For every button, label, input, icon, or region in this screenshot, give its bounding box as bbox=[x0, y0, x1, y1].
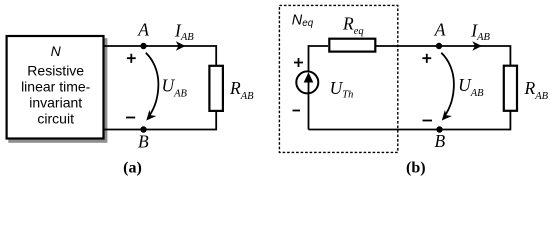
wire bottom (b) bbox=[309, 111, 511, 130]
svg-text:A: A bbox=[137, 20, 149, 40]
svg-text:N: N bbox=[51, 43, 62, 59]
svg-text:B: B bbox=[435, 131, 446, 151]
voltage arrow U_AB (a) bbox=[146, 53, 159, 117]
svg-text:B: B bbox=[138, 132, 149, 152]
resistor R_AB (b) bbox=[504, 66, 517, 111]
voltage arrow U_AB (b) bbox=[441, 53, 454, 117]
plus sign source bbox=[294, 58, 303, 67]
wire source top (b) bbox=[309, 46, 329, 71]
node B (a) bbox=[140, 126, 146, 132]
voltage source U_Th bbox=[296, 71, 318, 93]
plus sign (a) bbox=[127, 54, 136, 63]
svg-text:(a): (a) bbox=[123, 160, 142, 177]
current arrow I_AB (a) bbox=[176, 41, 186, 50]
wire source bottom (b) bbox=[308, 94, 310, 130]
current arrow I_AB (b) bbox=[472, 41, 482, 50]
node A (b) bbox=[436, 43, 442, 49]
label N resistive linear time-invariant circuit bbox=[21, 43, 91, 127]
wire bottom (a) bbox=[104, 111, 216, 130]
resistor R_AB (a) bbox=[209, 66, 223, 111]
svg-text:A: A bbox=[434, 20, 446, 40]
svg-text:Resistive: Resistive bbox=[27, 63, 84, 79]
box N (resistive circuit) bbox=[7, 36, 104, 139]
node A (a) bbox=[140, 43, 146, 49]
node B (b) bbox=[436, 126, 442, 132]
wire top (a) bbox=[104, 46, 216, 66]
svg-text:linear time-: linear time- bbox=[21, 79, 91, 95]
dashed box N_eq bbox=[279, 5, 397, 152]
resistor R_eq bbox=[329, 39, 375, 52]
svg-text:(b): (b) bbox=[406, 160, 426, 177]
minus sign (a) bbox=[126, 117, 135, 119]
minus sign source bbox=[293, 110, 301, 112]
svg-text:invariant: invariant bbox=[29, 95, 82, 111]
minus sign (b) bbox=[423, 120, 433, 122]
box N shadow bbox=[8, 38, 107, 143]
svg-text:circuit: circuit bbox=[37, 111, 74, 127]
wire top (b) bbox=[375, 46, 510, 66]
plus sign (b) bbox=[422, 54, 431, 63]
